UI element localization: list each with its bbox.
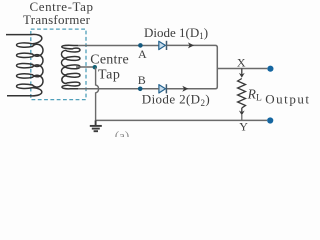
wire B: secondary bottom to diode 2 — [78, 88, 159, 90]
svg-text:B: B — [138, 73, 146, 87]
node B dot — [138, 87, 143, 92]
ground — [90, 120, 102, 131]
svg-text:X: X — [237, 56, 246, 70]
svg-text:Y: Y — [239, 119, 248, 133]
node A dot — [138, 43, 143, 48]
svg-text:L: L — [256, 93, 262, 103]
diode D1 — [159, 41, 167, 50]
wire: diode 1 to corner, down to B wire — [166, 45, 217, 88]
resistor stem bottom with arrow — [241, 108, 243, 112]
diode D2 — [159, 84, 167, 93]
centre tap wire — [76, 66, 94, 68]
svg-text:Output: Output — [265, 91, 310, 106]
svg-text:Tap: Tap — [98, 68, 120, 83]
dashed transformer box — [31, 29, 86, 100]
secondary winding S1 — [62, 45, 80, 89]
svg-text:Diode 1(D1): Diode 1(D1) — [144, 25, 208, 41]
current arrow on wire B — [182, 86, 188, 92]
svg-text:Diode 2(D2): Diode 2(D2) — [142, 92, 210, 108]
resistor RL zigzag — [238, 79, 246, 108]
primary winding P1 — [6, 34, 43, 95]
centre tap vertical wire with hop over B wire — [96, 67, 99, 120]
current arrow on wire A — [188, 42, 194, 48]
caption (a) clipped — [115, 128, 129, 143]
svg-text:Transformer: Transformer — [23, 12, 91, 27]
svg-text:A: A — [138, 47, 147, 61]
resistor stem top with arrow — [241, 69, 243, 76]
wire A: secondary top to diode 1 — [78, 45, 159, 47]
Y bottom line — [96, 119, 267, 121]
terminal dot Y — [267, 117, 273, 123]
X output line — [217, 68, 267, 70]
centre tap node dot — [93, 65, 97, 69]
terminal dot X — [267, 66, 273, 72]
svg-text:Centre: Centre — [90, 52, 129, 67]
